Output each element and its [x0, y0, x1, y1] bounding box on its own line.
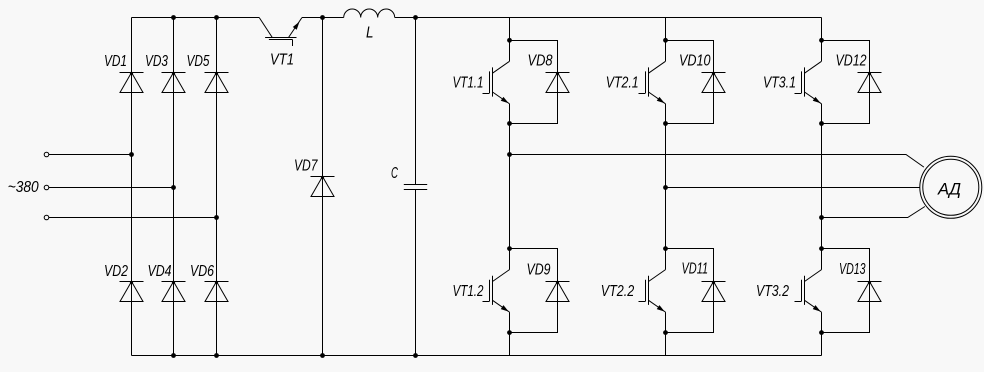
wire: inverter leg 3 collector segment: [821, 18, 823, 62]
junction: [507, 38, 512, 43]
svg-text:VT1.2: VT1.2: [453, 283, 484, 300]
wire: leg 2 emitter segment: [665, 312, 667, 355]
wire: rectifier column 2: [173, 18, 175, 356]
wire: C branch upper: [415, 18, 417, 185]
svg-text:VT3.1: VT3.1: [763, 75, 796, 92]
junction: [507, 152, 512, 157]
svg-text:VD3: VD3: [145, 53, 168, 70]
inductor L: [344, 9, 395, 41]
wire: C branch lower: [415, 190, 417, 356]
junction: [171, 185, 176, 190]
svg-text:VD4: VD4: [148, 263, 172, 280]
wire: VD7 branch: [322, 18, 324, 356]
wire: leg 3 emitter segment: [821, 312, 823, 355]
svg-text:VT3.2: VT3.2: [756, 283, 789, 300]
junction: [507, 121, 512, 126]
capacitor C: [391, 165, 427, 190]
diode VD12: [836, 52, 882, 92]
svg-text:VD9: VD9: [527, 261, 551, 278]
svg-text:VT2.1: VT2.1: [606, 75, 639, 92]
diode VD4: [148, 263, 186, 302]
wire: rectifier column 1: [131, 18, 133, 356]
svg-text:VD10: VD10: [679, 52, 711, 69]
wire: rectifier column 3: [216, 18, 218, 356]
wire: inverter leg 2 collector segment: [665, 18, 667, 62]
svg-text:VD5: VD5: [187, 53, 210, 70]
wire: VD12 branch: [822, 41, 870, 124]
junction: [214, 215, 219, 220]
transistor VT1.2: [453, 270, 510, 313]
wire: phase V rail: [666, 187, 920, 189]
diode VD11: [682, 261, 726, 302]
svg-text:L: L: [366, 24, 374, 41]
diode VD7: [294, 157, 335, 196]
svg-text:VD8: VD8: [528, 53, 553, 70]
junction bottom bus: [171, 353, 176, 358]
junction: [663, 246, 668, 251]
wire: input phase 1: [49, 154, 132, 156]
diode VD8: [528, 53, 570, 93]
junction: [663, 121, 668, 126]
diode VD10: [679, 52, 726, 92]
junction: [129, 152, 134, 157]
diode VD6: [190, 263, 229, 302]
junction: [507, 330, 512, 335]
wire: VD10 branch: [666, 41, 714, 124]
junction: [819, 330, 824, 335]
junction: [663, 185, 668, 190]
wire: input phase 3: [49, 217, 217, 219]
wire: phase W rail: [822, 207, 925, 218]
svg-text:АД: АД: [937, 180, 961, 199]
wire: top DC bus left section: [132, 17, 260, 19]
junction top bus: [171, 15, 176, 20]
junction: [819, 246, 824, 251]
svg-text:VT1: VT1: [270, 52, 294, 69]
transistor VT1.1: [453, 61, 510, 104]
svg-text:VD7: VD7: [294, 157, 318, 174]
diode VD2: [104, 263, 144, 302]
transistor VT2.1: [606, 61, 666, 104]
svg-text:VD11: VD11: [682, 261, 709, 278]
wire: top DC bus right section: [395, 17, 822, 19]
svg-text:VT1.1: VT1.1: [453, 74, 484, 91]
wire: VD11 branch: [666, 249, 714, 333]
junction: [413, 353, 418, 358]
junction: [819, 215, 824, 220]
svg-text:VD2: VD2: [104, 263, 128, 280]
svg-text:VT2.2: VT2.2: [601, 283, 635, 300]
input terminal 2: [44, 185, 49, 190]
diode VD5: [187, 53, 229, 93]
svg-text:C: C: [391, 165, 398, 182]
transistor VT2.2: [601, 270, 666, 313]
svg-text:VD12: VD12: [836, 52, 867, 69]
svg-text:VD1: VD1: [104, 53, 127, 70]
diode VD3: [145, 53, 186, 93]
diode VD13: [839, 261, 882, 302]
transistor VT1: [259, 18, 302, 69]
wire: bottom DC bus: [132, 355, 822, 357]
junction: [819, 121, 824, 126]
wire: top DC bus VT1-to-L: [302, 17, 344, 19]
wire: leg 1 middle segment: [509, 104, 511, 270]
junction top bus: [214, 15, 219, 20]
wire: leg 3 middle segment: [821, 104, 823, 270]
diode VD1: [104, 53, 144, 93]
junction: [819, 38, 824, 43]
diode VD9: [527, 261, 570, 301]
transistor VT3.2: [756, 270, 822, 313]
wire: leg 1 emitter segment: [509, 312, 511, 355]
input terminal 1: [44, 152, 49, 157]
junction: [663, 330, 668, 335]
junction: [507, 246, 512, 251]
svg-text:~380: ~380: [8, 179, 39, 196]
wire: VD9 branch: [510, 249, 558, 333]
junction bottom bus: [214, 353, 219, 358]
wire: input phase 2: [49, 187, 174, 189]
wire: VD8 branch: [510, 41, 558, 124]
junction: [663, 38, 668, 43]
junction: [320, 15, 325, 20]
motor AD: [920, 156, 982, 218]
junction: [413, 15, 418, 20]
svg-text:VD6: VD6: [190, 263, 214, 280]
input terminal 3: [44, 215, 49, 220]
transistor VT3.1: [763, 61, 822, 104]
junction: [320, 353, 325, 358]
wire: inverter leg 1 collector segment: [509, 18, 511, 62]
wire: VD13 branch: [822, 249, 870, 333]
wire: phase U rail: [510, 155, 924, 168]
wire: leg 2 middle segment: [665, 104, 667, 270]
svg-text:VD13: VD13: [839, 261, 866, 278]
